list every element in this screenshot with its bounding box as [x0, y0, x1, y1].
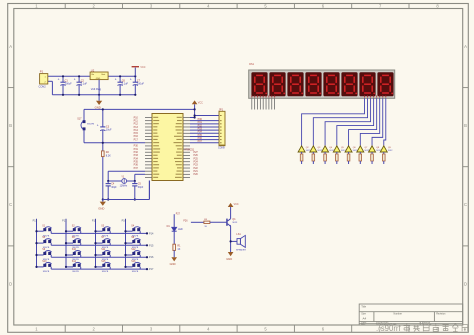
- svg-text:30pF: 30pF: [138, 186, 144, 189]
- svg-text:JP1: JP1: [219, 107, 224, 111]
- svg-text:P12: P12: [62, 220, 67, 223]
- svg-text:A: A: [9, 44, 12, 49]
- svg-text:P26: P26: [183, 220, 188, 222]
- svg-text:B: B: [464, 123, 467, 128]
- svg-text:Number: Number: [394, 312, 403, 315]
- svg-text:1K: 1K: [177, 248, 180, 251]
- svg-text:P20: P20: [194, 173, 199, 176]
- svg-text:+: +: [74, 78, 76, 82]
- svg-text:GND: GND: [98, 206, 104, 210]
- svg-text:Volt Reg: Volt Reg: [91, 87, 102, 91]
- svg-text:LS1: LS1: [236, 233, 241, 236]
- svg-text:S14: S14: [72, 261, 77, 263]
- svg-text:VCC: VCC: [140, 66, 145, 69]
- svg-text:VCC: VCC: [234, 203, 239, 206]
- svg-text:Revision: Revision: [436, 312, 446, 315]
- svg-text:30pF: 30pF: [111, 186, 117, 189]
- svg-text:9013: 9013: [232, 222, 238, 224]
- svg-text:U2: U2: [91, 68, 95, 72]
- svg-text:0.1uF: 0.1uF: [81, 83, 88, 86]
- svg-text:C: C: [9, 202, 12, 207]
- svg-text:SW-PB: SW-PB: [72, 271, 79, 273]
- svg-text:SW-PB: SW-PB: [43, 271, 50, 273]
- svg-text:GND: GND: [170, 262, 176, 266]
- svg-text:CON9: CON9: [218, 147, 225, 150]
- svg-text:P07: P07: [198, 140, 203, 143]
- svg-text:VCC: VCC: [198, 101, 203, 104]
- svg-text:P37: P37: [134, 167, 139, 170]
- svg-text:GND: GND: [96, 78, 101, 80]
- svg-text:B: B: [9, 123, 12, 128]
- svg-text:+: +: [58, 78, 60, 82]
- svg-text:S16: S16: [131, 261, 136, 263]
- svg-text:P27: P27: [176, 214, 181, 216]
- svg-text:DS1: DS1: [249, 63, 254, 66]
- svg-text:P16: P16: [149, 256, 154, 259]
- svg-text:Vin: Vin: [91, 74, 94, 76]
- svg-text:D: D: [464, 281, 467, 286]
- svg-text:P10: P10: [122, 220, 127, 223]
- svg-text:A: A: [464, 44, 467, 49]
- svg-text:SW-PB: SW-PB: [132, 271, 139, 273]
- svg-text:P14: P14: [149, 232, 154, 235]
- svg-text:S13: S13: [42, 261, 47, 263]
- svg-text:100uF: 100uF: [65, 83, 73, 86]
- svg-text:Size: Size: [361, 312, 366, 315]
- svg-text:D: D: [9, 281, 12, 286]
- svg-text:A4: A4: [363, 316, 367, 320]
- svg-text:P17: P17: [134, 138, 139, 141]
- svg-text:Vout: Vout: [101, 73, 105, 76]
- svg-text:LED: LED: [178, 228, 183, 231]
- svg-text:S15: S15: [101, 261, 106, 263]
- svg-text:+: +: [130, 78, 132, 82]
- svg-text:File:: File:: [361, 324, 366, 326]
- svg-text:12MHz: 12MHz: [120, 185, 128, 188]
- svg-text:P11: P11: [92, 220, 97, 223]
- svg-text:S10: S10: [72, 249, 77, 251]
- svg-text:P1: P1: [40, 69, 44, 73]
- svg-text:SW-PB: SW-PB: [102, 271, 109, 273]
- svg-text:GND: GND: [226, 257, 232, 261]
- svg-text:+: +: [97, 123, 99, 127]
- svg-text:10uF: 10uF: [106, 129, 112, 132]
- svg-text:CON2: CON2: [39, 84, 47, 88]
- svg-text:100uF: 100uF: [137, 83, 145, 86]
- svg-text:S12: S12: [131, 249, 136, 251]
- svg-text:Title: Title: [361, 304, 366, 308]
- svg-text:0.1uF: 0.1uF: [122, 83, 129, 86]
- svg-text:.(s90rrf: .(s90rrf: [376, 324, 402, 333]
- svg-text:+: +: [115, 78, 117, 82]
- svg-text:P15: P15: [149, 244, 154, 247]
- svg-text:SPEAKER: SPEAKER: [236, 249, 246, 252]
- svg-text:SW-PB: SW-PB: [87, 124, 95, 126]
- svg-text:P17: P17: [149, 268, 154, 271]
- svg-text:S17: S17: [77, 117, 82, 120]
- svg-text:C: C: [464, 202, 467, 207]
- svg-text:8.2K: 8.2K: [106, 154, 111, 157]
- svg-text:P13: P13: [33, 220, 38, 223]
